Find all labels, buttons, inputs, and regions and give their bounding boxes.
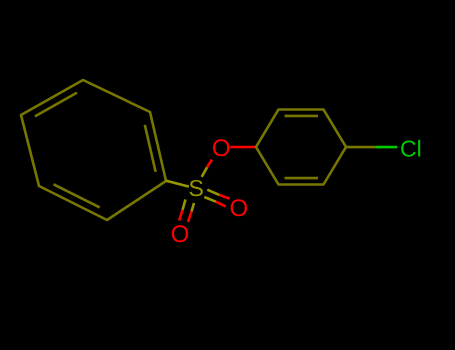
double bond S=O bottom, left line sulfur half <box>183 200 186 211</box>
double bond S=O right, upper line sulfur half <box>207 190 219 195</box>
double bond S=O right, upper line oxygen half <box>219 195 229 199</box>
double bond S=O bottom, right line oxygen half <box>188 212 192 223</box>
bond C1-S (ring to sulfur) <box>166 181 189 187</box>
svg-text:O: O <box>171 221 190 248</box>
left ring aromatic inner line (edge V3-V4) <box>35 93 77 117</box>
left ring aromatic inner line (edge V5-V6) <box>54 184 100 207</box>
left benzene ring (tolyl/phenyl ring of sulfonate) <box>21 80 166 220</box>
svg-text:O: O <box>229 195 248 222</box>
svg-text:S: S <box>189 175 204 201</box>
left ring aromatic inner line (edge V1-V2) <box>145 125 156 172</box>
right ring aromatic inner line (top edge) <box>285 115 319 118</box>
double bond S=O bottom, right line sulfur half <box>192 203 195 212</box>
bond C-Cl, carbon half (olive) <box>346 146 376 149</box>
bond C-Cl, chlorine half (green) <box>376 146 397 149</box>
double bond S=O bottom, left line oxygen half <box>179 210 182 221</box>
right ring aromatic inner line (bottom edge) <box>285 177 319 180</box>
right benzene ring (4-chlorophenyl) <box>256 110 346 185</box>
bond S-O ester, oxygen half (red) <box>207 160 212 168</box>
svg-text:Cl: Cl <box>400 135 422 161</box>
bond O ester to right ring (red) <box>230 146 256 149</box>
bond S-O ester, sulfur half (olive) <box>202 167 207 177</box>
double bond S=O right, lower line oxygen half <box>216 202 226 207</box>
double bond S=O right, lower line sulfur half <box>204 197 216 202</box>
svg-text:O: O <box>212 135 231 162</box>
